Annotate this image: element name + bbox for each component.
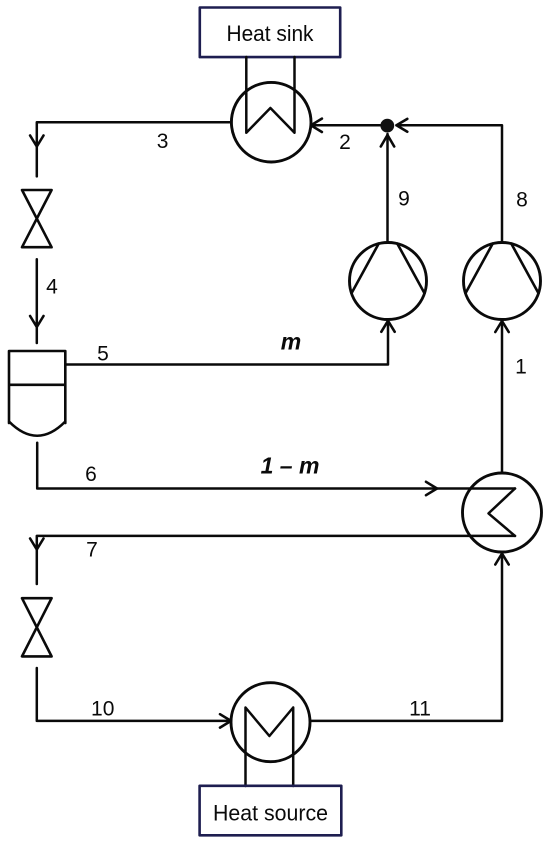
svg-text:1: 1 [515,356,527,379]
svg-text:3: 3 [157,130,169,153]
svg-text:11: 11 [409,698,431,721]
svg-text:2: 2 [339,131,351,154]
svg-text:10: 10 [91,698,114,721]
expansion valve V2 [22,598,52,656]
evaporator circle [231,683,310,762]
condenser circle [231,82,311,162]
svg-text:1 – m: 1 – m [261,452,320,478]
wire 4: valve V1 to flash tank [36,259,39,343]
evaporator coil pipes (M) [246,708,294,787]
svg-text:6: 6 [85,463,97,486]
arrow up into junction [381,135,394,147]
arrow left into condenser [311,119,322,132]
wire 10: valve V2 to evaporator [37,668,231,721]
wire 8: compressor 8 outlet to junction [397,125,503,242]
arrow up into compressor 8 [495,321,508,332]
arrow right on wire 6 [426,482,437,495]
compressor 9 circle [350,243,427,320]
wire 7: IHX to valve V2 [37,536,515,584]
svg-text:8: 8 [516,189,528,212]
wire 5: flash tank vapour to compressor 9 [65,321,388,365]
arrow down on wire 3 [30,136,43,147]
svg-text:Heat sink: Heat sink [227,21,315,46]
arrow right into evaporator [220,714,231,727]
arrow down on wire 7 [30,539,43,550]
compressor 8 chords [466,244,539,294]
svg-text:7: 7 [86,539,98,562]
wire 11: evaporator to IHX [310,554,502,721]
wire 6: flash tank liquid to IHX [37,443,515,489]
arrow left into junction [397,119,408,132]
IHX internal zigzag [489,489,516,536]
compressor 9 chords [352,244,425,294]
wire 3: condenser to valve V1 [37,122,232,176]
svg-text:4: 4 [46,276,58,299]
svg-text:5: 5 [97,343,109,366]
heat sink box [200,8,340,58]
arrow up into IHX [495,554,508,565]
arrow up into compressor 9 [381,321,394,332]
arrow down on wire 4 [30,316,43,327]
compressor 8 circle [464,243,541,320]
expansion valve V1 [22,190,52,247]
heat source box [200,786,342,836]
junction node [380,119,394,133]
svg-text:9: 9 [398,188,410,211]
wire 9: compressor 9 outlet to junction [386,134,389,242]
svg-text:Heat source: Heat source [213,801,328,826]
svg-text:m: m [281,328,301,354]
condenser coil pipes (W) [246,57,294,133]
wire 1: IHX to compressor 8 [501,321,504,473]
flash tank [9,351,65,436]
wire 2: junction to condenser [311,124,380,127]
IHX circle [463,473,542,552]
